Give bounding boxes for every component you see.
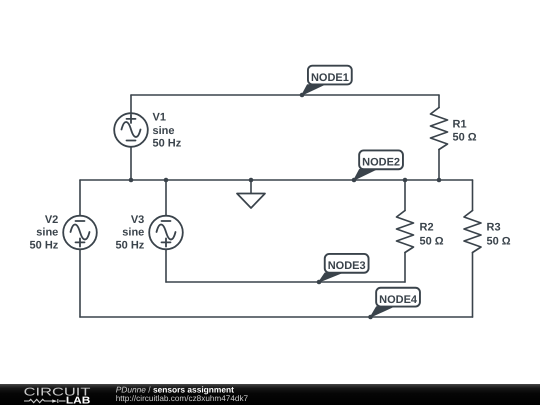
wire R3 bottom lead	[472, 253, 474, 318]
junction NODE4 anchor	[368, 315, 373, 320]
wire ground stub	[250, 180, 252, 193]
wire R2 top lead	[404, 180, 406, 211]
svg-text:PDunne / sensors assignment: PDunne / sensors assignment	[116, 384, 234, 394]
junction NODE1 anchor	[300, 93, 305, 98]
CircuitLab logo waveform	[24, 399, 66, 403]
svg-text:NODE3: NODE3	[328, 260, 366, 272]
CircuitLab logo diode arrow	[52, 399, 57, 402]
wire R3 top lead	[472, 180, 474, 211]
label V2	[30, 214, 59, 252]
CircuitLab logo LAB	[66, 395, 91, 405]
label R3	[487, 221, 511, 247]
ground	[237, 194, 265, 209]
resistor R2	[397, 211, 414, 253]
svg-text:50 Ω: 50 Ω	[420, 235, 444, 247]
svg-text:50 Hz: 50 Hz	[30, 240, 59, 252]
wire V2 bottom lead	[79, 249, 81, 317]
label V3	[116, 214, 145, 252]
junction R1-NODE2	[437, 178, 442, 183]
node NODE3	[319, 254, 369, 282]
voltage source V1	[114, 113, 148, 147]
svg-text:V1: V1	[153, 111, 166, 123]
wire R1 top lead	[438, 95, 440, 108]
resistor R3	[464, 211, 481, 253]
CircuitLab logo CIRCUIT	[24, 387, 91, 399]
svg-text:LAB: LAB	[66, 395, 91, 405]
wire V3 top lead	[165, 180, 167, 216]
wire NODE3 rail	[166, 281, 405, 283]
junction V1-NODE2	[129, 178, 134, 183]
wire R1 bottom lead	[438, 150, 440, 181]
junction ground-NODE2	[249, 178, 254, 183]
junction NODE2 anchor	[352, 178, 357, 183]
voltage source V2	[63, 216, 97, 250]
wire NODE1 rail	[131, 94, 439, 96]
svg-text:V2: V2	[45, 214, 58, 226]
svg-text:http://circuitlab.com/cz8xuhm4: http://circuitlab.com/cz8xuhm474dk7	[116, 394, 249, 403]
node NODE2	[354, 150, 403, 180]
svg-text:50 Ω: 50 Ω	[453, 131, 477, 143]
svg-text:NODE4: NODE4	[379, 294, 418, 306]
voltage source V3	[149, 216, 183, 250]
wire NODE4 rail	[80, 316, 473, 318]
svg-text:50 Hz: 50 Hz	[116, 240, 145, 252]
footer bar	[0, 384, 540, 405]
svg-text:sine: sine	[122, 227, 144, 239]
wire V1 top lead	[130, 95, 132, 114]
junction V3-NODE2	[164, 178, 169, 183]
resistor R1	[431, 108, 448, 150]
svg-text:50 Hz: 50 Hz	[153, 138, 182, 150]
junction NODE3 anchor	[317, 280, 322, 285]
label R1	[453, 119, 477, 144]
svg-text:R3: R3	[487, 221, 501, 233]
svg-text:V3: V3	[131, 214, 144, 226]
wire NODE2 rail	[80, 179, 473, 181]
svg-text:sine: sine	[153, 125, 175, 137]
wire R2 bottom lead	[404, 253, 406, 283]
label V1	[153, 111, 182, 149]
node NODE1	[302, 66, 352, 95]
svg-text:sine: sine	[36, 227, 58, 239]
footer credit line 2 url	[116, 394, 249, 403]
wire V2 top lead	[79, 180, 81, 216]
junction R2-NODE2	[403, 178, 408, 183]
label R2	[420, 221, 444, 247]
svg-text:NODE2: NODE2	[362, 157, 400, 169]
svg-text:50 Ω: 50 Ω	[487, 235, 511, 247]
svg-text:R1: R1	[453, 119, 467, 131]
wire V3 bottom lead	[165, 249, 167, 282]
svg-text:NODE1: NODE1	[311, 72, 349, 84]
wire V1 bottom lead	[130, 147, 132, 180]
node NODE4	[371, 288, 420, 317]
svg-text:R2: R2	[420, 221, 434, 233]
footer credit line 1	[116, 384, 234, 394]
